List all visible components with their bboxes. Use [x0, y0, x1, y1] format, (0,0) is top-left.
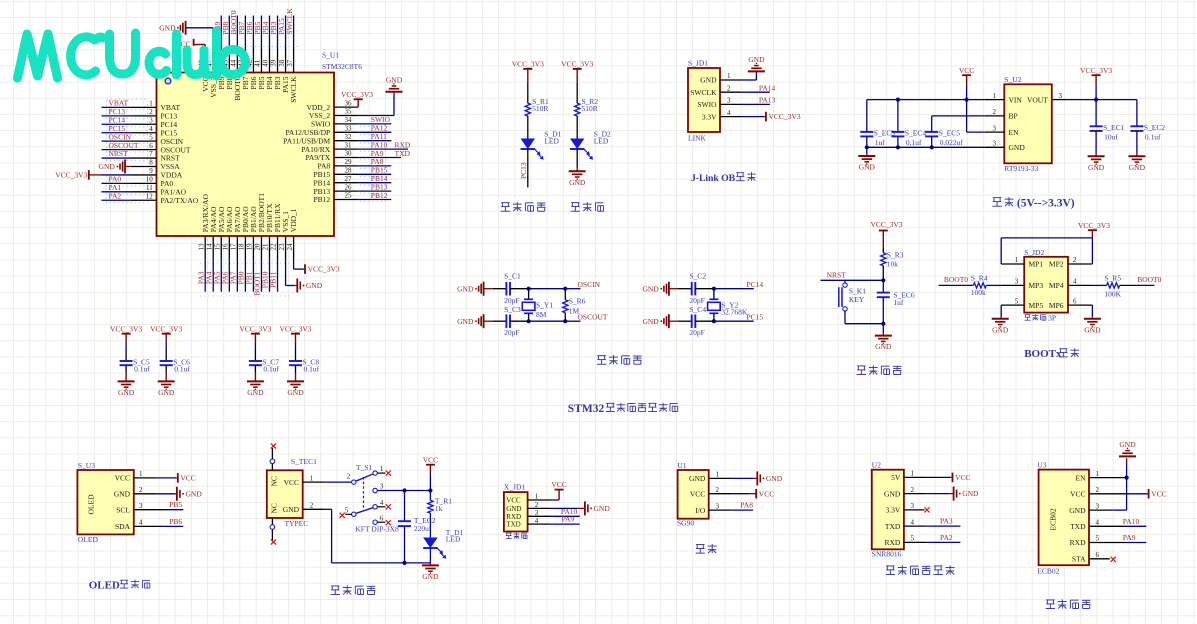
LED S_D1 — [521, 139, 536, 150]
svg-text:22: 22 — [270, 243, 278, 251]
wire S_C6 to ground — [165, 365, 167, 372]
svg-text:VCC_3V3: VCC_3V3 — [239, 325, 271, 334]
capacitor S_C4 20pF — [691, 314, 693, 328]
S_JD2 part jumper-3P — [1025, 314, 1031, 316]
wire + net label PB3 pin39 — [277, 16, 279, 47]
svg-text:STM32C8T6: STM32C8T6 — [322, 62, 362, 71]
svg-text:EN: EN — [1076, 473, 1087, 482]
svg-text:S_R5: S_R5 — [1104, 273, 1121, 282]
ground below S_EC2 — [1128, 155, 1145, 157]
S_JD2 pins 1/2 — [1001, 263, 1024, 265]
svg-text:28: 28 — [345, 167, 353, 175]
svg-text:5: 5 — [1096, 535, 1100, 543]
crystal S_Y2 — [713, 289, 715, 300]
svg-text:GND: GND — [700, 76, 717, 85]
svg-text:19: 19 — [246, 243, 254, 251]
svg-text:SNR8016: SNR8016 — [872, 549, 902, 558]
wire U1 pin1 to ground — [731, 477, 753, 479]
capacitor S_C8 0.1uf — [289, 360, 302, 362]
svg-text:SCL: SCL — [116, 505, 130, 514]
resistor S_R3 10k — [881, 253, 886, 266]
svg-text:4: 4 — [139, 519, 143, 527]
svg-text:VCC: VCC — [506, 497, 521, 505]
ground below rail — [429, 563, 431, 566]
wire EN/GND tie to ground — [1126, 463, 1128, 511]
U3 pin 5 RXD — [1089, 542, 1125, 544]
mcu pin 15 PA5/AO (bottom) — [220, 236, 222, 259]
svg-text:2: 2 — [993, 108, 997, 116]
mcu pin 33 PA12/USB/DP (right) — [334, 131, 358, 133]
svg-text:S_K1: S_K1 — [849, 286, 866, 295]
wire S_U3 pin1 to VCC — [156, 477, 177, 479]
svg-text:PA2: PA2 — [109, 191, 122, 200]
wire to PC14 / PC15 labels — [714, 288, 754, 290]
svg-text:7: 7 — [149, 150, 153, 158]
svg-text:5: 5 — [1015, 297, 1019, 305]
svg-text:36: 36 — [345, 99, 353, 107]
mcu pin 42 PB6 (top) — [252, 47, 254, 73]
svg-text:2: 2 — [310, 502, 314, 510]
power VCC_3V3 above S_R3 — [879, 230, 888, 232]
wire VIN rail — [867, 99, 985, 101]
S_TEC1 bottom NC pin with no-connect — [271, 518, 273, 541]
wire EN to VIN rail — [967, 131, 985, 133]
svg-text:0.022uf: 0.022uf — [940, 138, 964, 147]
svg-text:S_EC2: S_EC2 — [1144, 123, 1166, 132]
mcu pin 44 BOOT0 (top) — [236, 47, 238, 73]
svg-text:GND: GND — [422, 572, 439, 581]
ground below S_C6 — [158, 380, 175, 382]
mcu pin 1 VBAT (left) — [132, 106, 157, 108]
X_JD1 pin 2 GND — [528, 507, 550, 509]
S_U3 pin 4 SDA — [134, 525, 163, 527]
U2 pin 2 GND — [904, 493, 927, 495]
junction dots VIN rail — [896, 98, 900, 102]
title power-LED — [571, 202, 580, 204]
X_JD1 pin 4 TXD — [528, 523, 550, 525]
mcu pin 13 PA3/RX/AO (bottom) — [204, 236, 206, 259]
svg-text:PC15: PC15 — [747, 312, 764, 321]
svg-text:2: 2 — [716, 486, 720, 494]
wire S_EC2 to ground — [1136, 131, 1138, 154]
svg-text:VCC_3V3: VCC_3V3 — [110, 325, 142, 334]
switch levers — [356, 474, 373, 481]
svg-text:5: 5 — [345, 506, 349, 514]
mcu pin 40 PB4 (top) — [268, 47, 270, 73]
mcu pin 37 SWCLK (top) — [293, 47, 295, 73]
ground below reset — [875, 335, 892, 337]
svg-text:VCC_3V3: VCC_3V3 — [308, 265, 340, 274]
wire S_C5 to ground — [125, 365, 127, 372]
svg-text:32: 32 — [345, 133, 353, 141]
svg-text:STA: STA — [1072, 555, 1086, 564]
svg-text:1: 1 — [310, 474, 314, 482]
mcu pin 28 PB15 (right) — [334, 173, 358, 175]
wire + net label PA14 on S_JD1 pin2 — [742, 91, 770, 93]
wire U1 pin2 to VCC — [731, 493, 749, 495]
svg-text:1: 1 — [535, 493, 539, 501]
svg-text:44: 44 — [230, 59, 238, 67]
svg-text:4: 4 — [1096, 519, 1100, 527]
wire + net label PB14 pin27 — [358, 182, 391, 184]
svg-text:VCC_3V3: VCC_3V3 — [55, 171, 87, 180]
svg-text:GND: GND — [186, 489, 203, 498]
mcu pin 47 VSS_3 (top) — [212, 47, 214, 73]
wire pin1 to switch pole — [325, 481, 352, 483]
ground at U1 pin1 — [756, 471, 758, 485]
wire + net label PB5 pin41 — [260, 16, 262, 47]
switch throw 1 no-connect — [377, 472, 385, 474]
S_U2 pin EN — [985, 131, 1005, 133]
svg-text:3: 3 — [716, 502, 720, 510]
wire + net label PB13 pin26 — [358, 190, 391, 192]
wire + net label VBAT pin1 — [102, 106, 132, 108]
capacitor T_EC2 220uf — [404, 491, 406, 522]
resistor S_R6 1M — [564, 289, 566, 300]
capacitor S_C5 0.1uf — [120, 360, 133, 362]
power VCC at U1 pin2 — [755, 489, 757, 499]
svg-text:2: 2 — [1096, 486, 1100, 494]
wire U2 pin1 to VCC — [927, 476, 952, 478]
wire NRST — [821, 279, 884, 281]
wire VCC to S_C8 — [295, 342, 297, 349]
svg-text:VCC_3V3: VCC_3V3 — [150, 325, 182, 334]
U3 pin 6 STA — [1089, 558, 1110, 560]
svg-text:BOOT0: BOOT0 — [1137, 275, 1161, 284]
svg-text:VCC_3V3: VCC_3V3 — [279, 325, 311, 334]
svg-text:VCC: VCC — [959, 66, 974, 75]
svg-text:3: 3 — [993, 140, 997, 148]
mcu pin 38 PA15 (top) — [285, 47, 287, 73]
svg-text:VOUT: VOUT — [1027, 95, 1048, 104]
svg-text:1: 1 — [139, 470, 143, 478]
svg-text:2: 2 — [1073, 256, 1077, 264]
wire + net label PB6 S_U3 pin4 — [163, 525, 184, 527]
U1 pin 3 I/O — [709, 509, 731, 511]
svg-text:16: 16 — [222, 243, 230, 251]
svg-text:GND: GND — [1129, 163, 1146, 172]
mcu pin 26 PB13 (right) — [334, 190, 358, 192]
svg-text:8: 8 — [149, 159, 153, 167]
svg-text:0.1uf: 0.1uf — [1145, 133, 1161, 142]
svg-text:VCC: VCC — [1070, 490, 1085, 499]
svg-text:BOOTx: BOOTx — [1024, 348, 1062, 360]
svg-text:SWCLK: SWCLK — [289, 76, 298, 103]
svg-text:25: 25 — [345, 192, 353, 200]
svg-text:GND: GND — [642, 284, 659, 293]
wire + net label PB15 pin28 — [358, 173, 391, 175]
wire S_C7 to ground — [254, 365, 256, 372]
mcu pin 12 PA2/TX/AO (left) — [132, 199, 157, 201]
mcu pin 39 PB3 (top) — [277, 47, 279, 73]
S_JD1 pin 2 SWCLK — [720, 91, 742, 93]
U1 pin 1 GND — [709, 477, 731, 479]
wire + net label SWCLK pin37 — [293, 16, 295, 47]
MCUclub logo — [18, 31, 246, 78]
resistor T_R1 1k — [428, 500, 433, 513]
svg-text:GND: GND — [114, 490, 131, 499]
svg-text:(5V-->3.3V): (5V-->3.3V) — [1017, 198, 1075, 210]
svg-text:NRST: NRST — [827, 270, 847, 279]
svg-text:2: 2 — [727, 84, 731, 92]
resistor S_R4 100k — [973, 283, 986, 288]
wire mcu pin 23 VSS_1 to ground — [285, 259, 287, 285]
svg-text:0.1uf: 0.1uf — [263, 365, 279, 374]
svg-text:VCC: VCC — [180, 474, 195, 483]
ground below pin5 — [992, 318, 1009, 320]
svg-text:33: 33 — [345, 125, 353, 133]
wire + net label PA8 pin29 — [358, 165, 391, 167]
svg-text:3.3V: 3.3V — [886, 506, 901, 515]
mcu pin 11 PA1/AO (left) — [132, 191, 157, 193]
svg-text:SDA: SDA — [115, 522, 131, 531]
svg-text:GND: GND — [386, 76, 403, 85]
svg-text:41: 41 — [254, 59, 262, 67]
svg-text:GND: GND — [766, 474, 783, 483]
wire + net label PB4 pin40 — [268, 16, 270, 47]
svg-text:SWIO: SWIO — [697, 100, 717, 109]
svg-text:VCC: VCC — [423, 456, 438, 465]
power VCC_3V3 above S_C5 — [122, 333, 131, 335]
svg-text:3: 3 — [535, 509, 539, 517]
wire + net label PB5 S_U3 pin3 — [163, 509, 184, 511]
wire + net label PB7 pin43 — [244, 16, 246, 47]
wire + net label PA10 pin3 — [550, 515, 580, 517]
svg-text:6: 6 — [380, 515, 384, 523]
svg-text:S_C4: S_C4 — [689, 305, 706, 314]
svg-text:BOOT0: BOOT0 — [944, 275, 968, 284]
svg-text:0.1uf: 0.1uf — [304, 365, 320, 374]
power VCC above pin1 — [555, 489, 564, 491]
svg-text:OLED: OLED — [89, 579, 120, 591]
ground rail wire — [332, 562, 431, 564]
svg-text:34: 34 — [345, 116, 353, 124]
svg-text:6: 6 — [149, 142, 153, 150]
wire S_EC3 to ground — [866, 147, 868, 154]
S_TEC1 pin1 VCC — [303, 481, 325, 483]
wire T_D1 to ground rail — [429, 548, 431, 563]
title servo — [696, 544, 705, 546]
U3 pin 3 GND — [1089, 509, 1112, 511]
connector S_JD1 body — [688, 68, 720, 132]
svg-text:0.1uf: 0.1uf — [174, 365, 190, 374]
wire + net label PA1 pin11 — [102, 191, 132, 193]
svg-text:OSCOUT: OSCOUT — [578, 312, 608, 321]
svg-text:VCC_3V3: VCC_3V3 — [1078, 221, 1110, 230]
svg-text:TXD: TXD — [1070, 522, 1086, 531]
power VCC_3V3 above S_C7 — [251, 333, 260, 335]
ground below S_C7 — [247, 380, 264, 382]
svg-text:TYPEC: TYPEC — [285, 519, 309, 528]
power VCC_3V3 above S_C8 — [291, 333, 300, 335]
mcu U1 STM32C8T6 body — [157, 73, 335, 237]
svg-text:PB11: PB11 — [269, 271, 278, 288]
svg-text:PA13: PA13 — [759, 96, 776, 105]
svg-text:1: 1 — [1096, 470, 1100, 478]
U2 pin 3 3.3V — [904, 509, 925, 511]
svg-text:6: 6 — [1096, 551, 1100, 559]
svg-text:31: 31 — [345, 141, 353, 149]
wire VCC to S_C6 — [165, 342, 167, 349]
capacitor S_C3 20pF — [505, 314, 507, 328]
svg-text:PA10: PA10 — [1123, 517, 1140, 526]
svg-text:2: 2 — [347, 473, 351, 481]
title download port — [506, 532, 512, 534]
mcu pin 41 PB5 (top) — [260, 47, 262, 73]
svg-text:MP1: MP1 — [1029, 260, 1044, 269]
mcu pin 31 PA10/RX (right) — [334, 148, 358, 150]
svg-text:S_U1: S_U1 — [322, 51, 339, 60]
resistor S_R1 510R — [525, 103, 530, 116]
svg-text:GND: GND — [99, 162, 116, 171]
svg-text:21: 21 — [262, 243, 270, 251]
svg-text:VCC: VCC — [690, 489, 705, 498]
wire to ground — [882, 324, 884, 334]
svg-text:20: 20 — [254, 243, 262, 251]
mcu pin 24 VDD_1 (bottom) — [293, 236, 295, 259]
wire + net label BOOT1 pin20 — [260, 259, 262, 291]
svg-text:VCC: VCC — [284, 478, 299, 487]
U2 pin 1 5V — [904, 476, 927, 478]
svg-text:S_R3: S_R3 — [887, 251, 904, 260]
svg-text:GND: GND — [158, 388, 175, 397]
wire + net label PB0 pin18 — [244, 259, 246, 291]
wire pin5 to ground — [1000, 305, 1002, 317]
wire VCC to resistor S_R1 — [527, 82, 529, 103]
svg-text:510R: 510R — [532, 104, 548, 113]
U3 pin 2 VCC — [1089, 493, 1126, 495]
svg-text:40: 40 — [262, 59, 270, 67]
module U3 bluetooth body — [1039, 470, 1089, 566]
wire S_EC3 bottom — [866, 136, 868, 147]
svg-text:1k: 1k — [435, 504, 443, 513]
wire mcu pin 24 VDD_1 to VCC_3V3 — [293, 259, 295, 269]
mcu pin 25 PB12 (right) — [334, 199, 358, 201]
title programmable-LED — [501, 202, 510, 204]
wire VCC to S_C7 — [254, 342, 256, 349]
X_JD1 pin 3 RXD — [528, 515, 550, 517]
wire + net label PA9 pin30 — [358, 157, 401, 159]
power VCC_3V3 at S_JD1 pin4 — [765, 112, 767, 122]
U2 pin 5 RXD — [904, 541, 927, 543]
svg-text:3: 3 — [139, 502, 143, 510]
wire ground to S_C4 — [678, 320, 692, 322]
S_TEC1 top NC pin with no-connect — [271, 448, 273, 470]
power VCC_3V3 above S_R1 — [523, 68, 532, 70]
wire + net label PB9 pin46 — [220, 16, 222, 47]
wire LED S_D2 to ground — [576, 149, 578, 168]
wire S_C1 to crystal node — [510, 288, 529, 290]
wire BP to cap S_EC5 — [932, 115, 985, 117]
svg-text:MP3: MP3 — [1029, 281, 1044, 290]
svg-text:GND: GND — [689, 474, 706, 483]
svg-text:PB12: PB12 — [314, 195, 331, 204]
power VCC_3V3 at mcu pin 36 VDD_2 — [354, 98, 363, 100]
svg-text:5: 5 — [911, 535, 915, 543]
ground below pin6 — [1084, 318, 1101, 320]
svg-text:4: 4 — [380, 499, 384, 507]
svg-text:GND: GND — [594, 504, 611, 513]
no-connect U3 pin6 STA — [1111, 557, 1116, 562]
svg-text:MP4: MP4 — [1049, 281, 1064, 290]
svg-text:4: 4 — [1073, 278, 1077, 286]
svg-text:S_U3: S_U3 — [78, 461, 95, 470]
svg-text:LED: LED — [446, 535, 461, 544]
wire S_R5 to BOOT0 right — [1120, 284, 1155, 286]
wire + net label SWIO pin34 — [358, 123, 391, 125]
mcu pin 48 VCC (top) — [204, 47, 206, 73]
svg-text:TXD: TXD — [885, 522, 901, 531]
capacitor S_C1 20pF — [505, 282, 507, 296]
power VCC above T_R1 — [426, 464, 435, 466]
svg-text:TXD: TXD — [395, 149, 411, 158]
wire U3 pin2 to VCC — [1126, 493, 1148, 495]
wire + net label PB8 pin45 — [228, 16, 230, 47]
wire pin6 to ground — [1091, 305, 1093, 317]
svg-text:SG90: SG90 — [677, 518, 694, 527]
svg-text:15: 15 — [213, 243, 221, 251]
S_JD1 pin 4 3.3V — [720, 116, 742, 118]
wire BOOT0 to S_R4 — [939, 284, 974, 286]
module U1 servo body — [678, 470, 709, 519]
wire + net label PB10 pin21 — [268, 259, 270, 291]
svg-text:35: 35 — [345, 108, 353, 116]
ground at mcu pin 35 VSS_2 — [358, 115, 394, 117]
mcu pin 2 PC13 (left) — [132, 115, 157, 117]
wire U2 pin2 to ground — [927, 493, 950, 495]
svg-text:S_C3: S_C3 — [504, 305, 521, 314]
title power circuit — [331, 585, 340, 587]
svg-text:RXD: RXD — [884, 538, 900, 547]
svg-text:2: 2 — [535, 501, 539, 509]
svg-text:24: 24 — [286, 243, 294, 251]
module U2 voice body — [872, 470, 904, 550]
svg-text:1: 1 — [1015, 256, 1019, 264]
ground at U2 pin2 — [953, 487, 955, 501]
svg-text:GND: GND — [1088, 163, 1105, 172]
svg-text:GND: GND — [875, 342, 892, 351]
mcu pin 43 PB7 (top) — [244, 47, 246, 73]
svg-text:STM32: STM32 — [568, 403, 605, 415]
mcu pin 32 PA11/USB/DM (right) — [334, 140, 358, 142]
svg-text:VCC_3V3: VCC_3V3 — [512, 60, 544, 69]
svg-text:510R: 510R — [582, 104, 598, 113]
svg-text:29: 29 — [345, 158, 353, 166]
S_JD2 pins 5/6 — [1001, 304, 1024, 306]
wire S_C3 to crystal node — [510, 320, 529, 322]
svg-text:9: 9 — [149, 167, 153, 175]
power VCC_3V3 above S_C6 — [162, 333, 171, 335]
crystal S_Y1 — [528, 289, 530, 300]
title power 5V to 3.3V — [993, 197, 1002, 199]
svg-text:VCC_3V3: VCC_3V3 — [1080, 66, 1112, 75]
svg-text:PA14: PA14 — [759, 83, 776, 92]
svg-text:10uf: 10uf — [1104, 133, 1118, 142]
svg-text:0.1uf: 0.1uf — [906, 138, 922, 147]
svg-text:S_EC4: S_EC4 — [905, 129, 927, 138]
svg-text:0.1uf: 0.1uf — [134, 365, 150, 374]
mcu pin 10 PA0 (left) — [132, 182, 157, 184]
S_U3 pin 1 VCC — [134, 477, 156, 479]
svg-text:13: 13 — [197, 243, 205, 251]
wire + net label PA4 pin14 — [212, 259, 214, 291]
mcu pin 17 PA7/AO (bottom) — [236, 236, 238, 259]
svg-text:32.768K: 32.768K — [721, 308, 748, 317]
svg-text:5V: 5V — [891, 473, 901, 482]
svg-text:PC13: PC13 — [519, 162, 528, 179]
wire + net label PB11 pin22 — [277, 259, 279, 291]
svg-text:NC: NC — [270, 476, 279, 486]
